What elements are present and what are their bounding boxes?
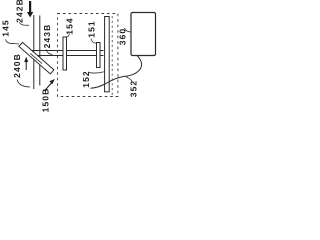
wire leader 360 xyxy=(125,28,132,32)
svg-text:151: 151 xyxy=(86,20,96,37)
svg-text:154: 154 xyxy=(64,17,74,34)
wire long curve to module (connection curve lower) xyxy=(91,76,125,88)
arrow 242B (thick incoming-light arrow) xyxy=(27,1,33,17)
arrow 240B (small up arrow) xyxy=(24,57,28,70)
wire leader 240B xyxy=(17,80,30,88)
arrow 150B (diagonal up-right arrow) xyxy=(44,79,55,91)
svg-text:242B: 242B xyxy=(14,0,24,23)
plate 152 (tall element) xyxy=(105,17,110,92)
plate 154 xyxy=(63,37,67,70)
mirror 145 and mirror 240B (long diagonal slat pair) xyxy=(19,42,54,74)
wire leader 154 xyxy=(66,34,70,38)
wire leader 243B xyxy=(47,50,53,55)
wire leader 151 xyxy=(91,39,97,44)
wire vertical beam path (left line) xyxy=(33,15,35,89)
svg-text:145: 145 xyxy=(0,19,10,36)
wire vertical beam path (right line) xyxy=(39,16,41,86)
wire horizontal beam path (upper line) xyxy=(28,50,104,52)
svg-text:243B: 243B xyxy=(42,24,52,49)
svg-text:150B: 150B xyxy=(40,88,50,113)
wire leader 352 xyxy=(126,77,132,82)
wire leader 152 xyxy=(89,72,104,73)
wire leader 242B xyxy=(20,22,30,25)
wire horizontal beam path (lower line) xyxy=(33,55,104,57)
box 360 xyxy=(131,13,156,56)
wire inner vertical line (element edge inside module) xyxy=(111,16,113,97)
wire arc from box 360 (connection curve) xyxy=(125,56,142,77)
dashed enclosure (optical module outline) xyxy=(58,14,118,97)
svg-text:352: 352 xyxy=(128,80,138,97)
svg-text:240B: 240B xyxy=(12,53,22,78)
wire leader 145 xyxy=(6,40,20,45)
plate 151 xyxy=(97,43,101,68)
